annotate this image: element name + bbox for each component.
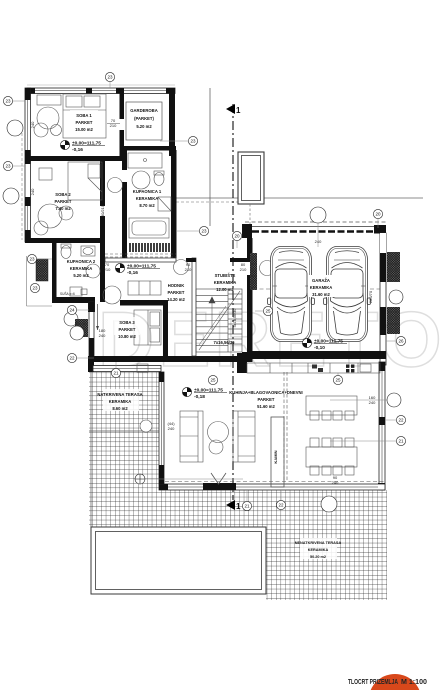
svg-text:24: 24 bbox=[69, 308, 75, 313]
level markers bbox=[60, 140, 347, 400]
soba1 closet bbox=[37, 95, 61, 105]
soba2/kup2 right wall bbox=[100, 161, 105, 206]
bathroom right wall bbox=[171, 150, 177, 258]
svg-text:23: 23 bbox=[107, 75, 113, 80]
svg-text:PARKET: PARKET bbox=[119, 327, 136, 332]
svg-text:31.60 m2: 31.60 m2 bbox=[312, 292, 330, 297]
soba2 bottom wall H5 bbox=[25, 238, 105, 243]
svg-text:210: 210 bbox=[110, 123, 117, 128]
svg-text:25: 25 bbox=[265, 309, 271, 314]
svg-text:KERAMIKA: KERAMIKA bbox=[214, 280, 237, 285]
stairs left wall bbox=[192, 258, 196, 356]
svg-text:7x16,56/30: 7x16,56/30 bbox=[214, 340, 236, 345]
svg-text:KERAMIKA: KERAMIKA bbox=[310, 285, 333, 290]
soba3 right wall bbox=[163, 300, 168, 356]
svg-text:8.70 m2: 8.70 m2 bbox=[139, 203, 155, 208]
terrace grid bottom strip bbox=[89, 490, 387, 527]
svg-text:NATKRIVENA TERASA: NATKRIVENA TERASA bbox=[97, 392, 142, 397]
svg-text:SOBA 2: SOBA 2 bbox=[55, 192, 71, 197]
svg-text:12.00 m2: 12.00 m2 bbox=[216, 287, 234, 292]
kamin flue dashed bbox=[283, 372, 285, 481]
terrace zone boundary lines bbox=[89, 430, 161, 432]
svg-text:1: 1 bbox=[236, 502, 241, 511]
sofa right bbox=[233, 411, 255, 462]
H2 divider bbox=[30, 156, 122, 161]
cross circle bbox=[135, 474, 243, 484]
stairs right / garage left wall bbox=[242, 224, 252, 238]
svg-text:240: 240 bbox=[332, 480, 339, 485]
svg-text:25: 25 bbox=[210, 378, 216, 383]
svg-text:GARAŽA: GARAŽA bbox=[312, 278, 330, 283]
kup1 vanity bbox=[128, 153, 162, 168]
svg-text:SOBA 1: SOBA 1 bbox=[76, 113, 92, 118]
fireplace bbox=[271, 417, 284, 487]
soba1 bed bbox=[63, 94, 106, 138]
svg-text:26: 26 bbox=[398, 339, 404, 344]
entrance pillar hatch bbox=[75, 319, 88, 337]
svg-text:285/70: 285/70 bbox=[368, 290, 373, 303]
soba2 desk bbox=[39, 168, 52, 180]
radiator kup1 bbox=[130, 243, 169, 252]
kup1 shower square bbox=[158, 197, 171, 211]
front door leaf bbox=[97, 304, 99, 330]
svg-text:20: 20 bbox=[234, 234, 240, 239]
svg-text:KERAMIKA: KERAMIKA bbox=[109, 399, 132, 404]
svg-text:-0,18: -0,18 bbox=[194, 394, 205, 400]
svg-text:8.60 m2: 8.60 m2 bbox=[112, 406, 128, 411]
entrance overlap circle bbox=[64, 312, 78, 326]
svg-text:KERAMIKA: KERAMIKA bbox=[136, 196, 159, 201]
kup2 wc bbox=[61, 246, 71, 259]
svg-text:23: 23 bbox=[201, 229, 207, 234]
svg-text:23: 23 bbox=[190, 139, 196, 144]
terrace left wall edge bbox=[89, 302, 94, 356]
svg-text:PARKET: PARKET bbox=[55, 199, 72, 204]
svg-text:22: 22 bbox=[278, 503, 284, 508]
section line bbox=[232, 104, 234, 500]
svg-text:240: 240 bbox=[30, 121, 35, 128]
terrace window strip bbox=[88, 362, 94, 372]
living bottom wall bbox=[159, 484, 385, 490]
kitchen appliances bbox=[312, 365, 317, 369]
svg-text:-0,16: -0,16 bbox=[127, 270, 138, 276]
svg-text:TLOCRT PRIZEMLJA: TLOCRT PRIZEMLJA bbox=[348, 677, 398, 686]
svg-text:240: 240 bbox=[99, 333, 106, 338]
svg-text:23: 23 bbox=[5, 99, 11, 104]
level marker living bbox=[182, 387, 227, 400]
svg-text:GARDEROBA: GARDEROBA bbox=[130, 108, 157, 113]
stairs bbox=[196, 289, 242, 352]
chimney bbox=[238, 152, 264, 204]
garderoba bottom / bath top bbox=[124, 146, 176, 151]
svg-text:PARKET: PARKET bbox=[76, 120, 93, 125]
kitchen counter bbox=[247, 363, 380, 373]
coffee tables bbox=[208, 422, 229, 443]
living right wall bbox=[379, 362, 385, 490]
overhang thin lines bbox=[209, 88, 211, 226]
svg-text:SUŠA p=6: SUŠA p=6 bbox=[60, 291, 75, 296]
svg-text:5.20 m2: 5.20 m2 bbox=[73, 273, 89, 278]
svg-text:10.80 m2: 10.80 m2 bbox=[118, 334, 136, 339]
svg-text:240: 240 bbox=[168, 426, 175, 431]
V window mark bbox=[211, 473, 226, 484]
entry steps hatch block bbox=[36, 259, 48, 281]
terrace grid right of pool bbox=[266, 527, 387, 600]
svg-text:20: 20 bbox=[375, 212, 381, 217]
soba1 round table bbox=[37, 107, 59, 129]
kup2 sink bbox=[81, 246, 95, 256]
svg-text:240: 240 bbox=[369, 400, 376, 405]
svg-text:PARKET: PARKET bbox=[168, 290, 185, 295]
vest item bbox=[70, 287, 82, 296]
left wall bbox=[25, 88, 31, 242]
garage top door bbox=[252, 226, 380, 228]
svg-text:14.20 m2: 14.20 m2 bbox=[167, 297, 185, 302]
svg-text:1: 1 bbox=[236, 106, 241, 115]
svg-text:21: 21 bbox=[398, 439, 404, 444]
svg-text:(PARKET): (PARKET) bbox=[134, 116, 154, 121]
level marker hall bbox=[115, 263, 160, 276]
svg-text:51.60 m2: 51.60 m2 bbox=[257, 404, 275, 409]
dashed line above garage bbox=[245, 221, 386, 223]
svg-text:KUHINJA+BLAGOVAONICA+DNEVNI: KUHINJA+BLAGOVAONICA+DNEVNI bbox=[229, 390, 302, 395]
svg-text:NENATKRIVENA TERASA: NENATKRIVENA TERASA bbox=[295, 541, 342, 545]
top wall upper block bbox=[27, 88, 175, 94]
svg-text:50.20 m2: 50.20 m2 bbox=[310, 555, 326, 559]
svg-text:KERAMIKA: KERAMIKA bbox=[70, 266, 93, 271]
svg-text:KUPAONICA 1: KUPAONICA 1 bbox=[133, 189, 162, 194]
svg-text:-0,10: -0,10 bbox=[314, 345, 325, 351]
svg-text:5x16,56/30: 5x16,56/30 bbox=[233, 309, 237, 328]
svg-text:210: 210 bbox=[240, 267, 247, 272]
dining table2 bbox=[306, 447, 357, 467]
soba3 bed bbox=[134, 310, 161, 345]
pool bbox=[91, 527, 266, 594]
wall top of stub/hall doors row bbox=[105, 258, 176, 262]
garage bottom wall bbox=[247, 351, 386, 359]
svg-text:23: 23 bbox=[32, 286, 38, 291]
svg-text:22: 22 bbox=[69, 356, 75, 361]
vestibule left wall bbox=[52, 243, 57, 302]
bathroom left wall bbox=[122, 150, 127, 170]
right wall upper block bbox=[169, 88, 175, 156]
divider soba1 / garderoba bbox=[120, 93, 125, 119]
soba3 top wall bbox=[120, 300, 168, 306]
bathtub bbox=[129, 218, 169, 238]
svg-text:23: 23 bbox=[29, 257, 35, 262]
kup1 wc bbox=[154, 173, 164, 186]
svg-text:7.40 m2: 7.40 m2 bbox=[55, 206, 71, 211]
svg-text:KUPAONICA 2: KUPAONICA 2 bbox=[67, 259, 96, 264]
svg-text:25: 25 bbox=[335, 378, 341, 383]
svg-text:SOBA 3: SOBA 3 bbox=[119, 320, 135, 325]
svg-text:5.20 m2: 5.20 m2 bbox=[136, 124, 152, 129]
svg-text:M 1:100: M 1:100 bbox=[401, 677, 427, 686]
hall bottom wall H7 bbox=[88, 356, 247, 362]
svg-text:240: 240 bbox=[315, 239, 322, 244]
svg-text:STUBIŠTE: STUBIŠTE bbox=[215, 273, 236, 278]
svg-text:210: 210 bbox=[185, 267, 192, 272]
svg-text:240: 240 bbox=[30, 188, 35, 195]
svg-text:210: 210 bbox=[104, 267, 111, 272]
dining table1 bbox=[306, 396, 357, 415]
svg-text:80/210: 80/210 bbox=[100, 204, 105, 217]
vestibule bottom H6 bbox=[52, 297, 88, 303]
garage right wall bbox=[380, 233, 386, 365]
svg-text:KERAMIKA: KERAMIKA bbox=[308, 548, 329, 552]
garderoba box bbox=[126, 102, 162, 140]
sofa left bbox=[180, 411, 203, 462]
svg-text:21: 21 bbox=[113, 371, 119, 376]
terrace icon square bbox=[137, 364, 148, 372]
kup1 shower circle bbox=[132, 171, 150, 189]
dashed lines bath bottom bbox=[105, 253, 176, 255]
soba3 door circle bbox=[103, 286, 121, 304]
svg-text:HODNIK: HODNIK bbox=[168, 283, 185, 288]
level marker garage bbox=[302, 338, 347, 351]
soba2 bed bbox=[68, 162, 102, 200]
garage mid dashed bbox=[253, 288, 380, 290]
level marker soba1 bbox=[60, 140, 105, 153]
terrace right wall / living left wall bbox=[159, 372, 164, 484]
cars bbox=[268, 247, 315, 342]
soba3 wardrobe bbox=[128, 281, 161, 295]
title + logo bbox=[369, 674, 421, 690]
svg-text:15.00 m2: 15.00 m2 bbox=[75, 127, 93, 132]
svg-text:PARKET: PARKET bbox=[258, 397, 275, 402]
soba2 round table bbox=[38, 204, 62, 228]
svg-text:22: 22 bbox=[398, 418, 404, 423]
svg-text:21: 21 bbox=[244, 504, 250, 509]
stairs bottom corner bbox=[242, 352, 252, 361]
svg-text:-0,16: -0,16 bbox=[72, 147, 83, 153]
svg-text:KAMIN: KAMIN bbox=[273, 450, 278, 463]
svg-text:23: 23 bbox=[5, 164, 11, 169]
door circles bbox=[59, 206, 73, 220]
dimension texts bbox=[30, 118, 376, 485]
terrace grid covered bbox=[89, 372, 162, 490]
